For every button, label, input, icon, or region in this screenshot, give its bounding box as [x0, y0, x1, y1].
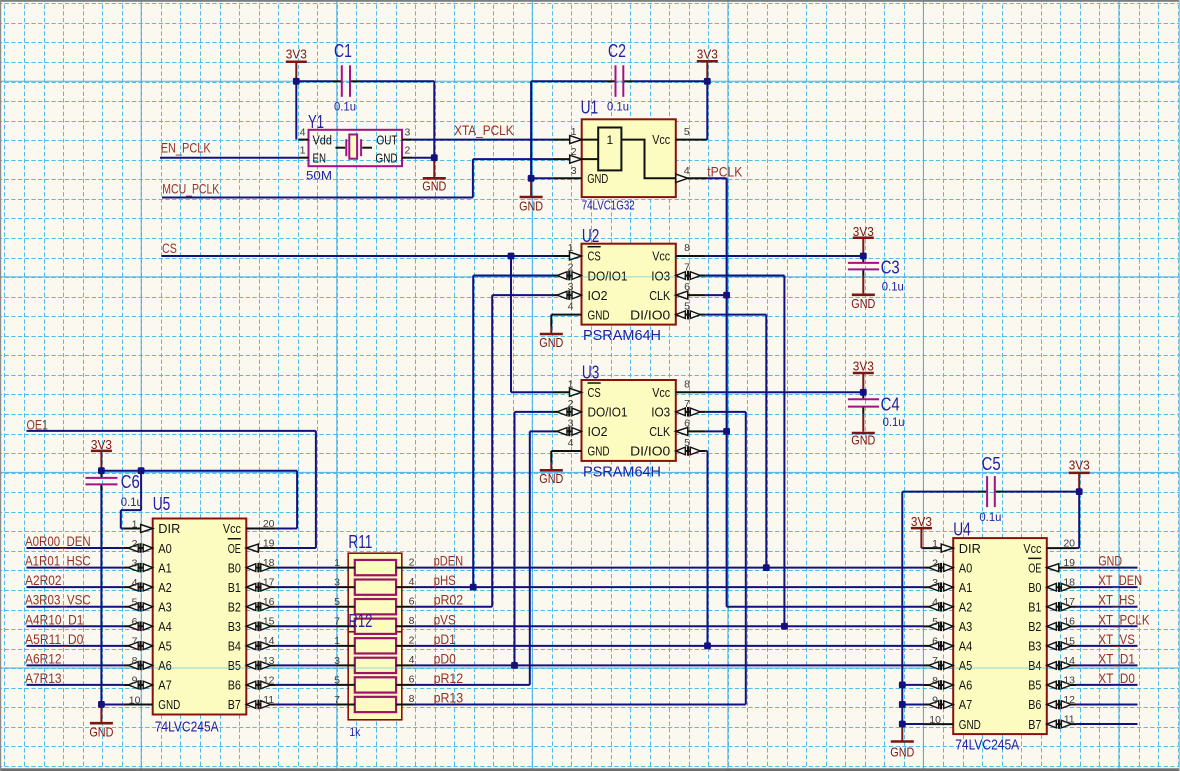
R11 pin 1: [336, 567, 355, 569]
svg-text:A5: A5: [158, 639, 172, 654]
svg-text:8: 8: [684, 242, 690, 254]
svg-text:XT_DEN: XT_DEN: [1098, 573, 1142, 588]
svg-text:A2: A2: [158, 580, 172, 595]
Y1 pin 1: [298, 157, 308, 159]
wire U5 B7 to R12.7: [276, 703, 336, 705]
svg-text:U1: U1: [581, 97, 599, 118]
U2 pin 5: [676, 314, 706, 316]
junction U4 A7: [899, 701, 906, 708]
svg-text:A2R02: A2R02: [25, 573, 62, 588]
svg-text:C6: C6: [121, 471, 140, 492]
wire pR12: [414, 684, 530, 686]
svg-text:XT_VS: XT_VS: [1098, 632, 1135, 647]
svg-text:3: 3: [568, 281, 574, 293]
svg-text:CS: CS: [162, 241, 177, 256]
svg-text:B5: B5: [228, 658, 241, 673]
resistor R11.4: [355, 619, 396, 634]
U4 pin 13: [1047, 684, 1077, 686]
wire CS: [162, 256, 553, 392]
svg-text:GND: GND: [422, 178, 446, 193]
U2 pin 2: [552, 275, 581, 277]
resistor R12.1: [355, 638, 396, 653]
svg-text:OUT: OUT: [377, 132, 398, 147]
svg-text:Vcc: Vcc: [652, 249, 670, 264]
svg-text:17: 17: [1063, 596, 1075, 608]
svg-text:4: 4: [132, 577, 138, 589]
svg-text:XTA_PCLK: XTA_PCLK: [454, 123, 513, 138]
svg-text:3V3: 3V3: [91, 437, 112, 452]
U5 pin 12: [246, 684, 275, 686]
svg-text:OE: OE: [1028, 560, 1041, 575]
wire U2 DO/IO1 to pHS: [473, 276, 552, 588]
wire C2 left down to U1 GND pin: [530, 81, 532, 178]
U3 pin 8: [676, 391, 706, 393]
wire pD1: [414, 645, 924, 647]
svg-text:6: 6: [132, 616, 138, 628]
wire U3 DI/IO0 to pD1: [705, 451, 707, 646]
svg-text:6: 6: [409, 595, 415, 607]
svg-text:GND: GND: [158, 697, 180, 712]
wire pHS: [414, 586, 924, 588]
wire U5 B4 to R12.1: [276, 645, 336, 647]
ground GND at U5 pin10: [89, 704, 113, 739]
wire A6R12: [27, 664, 124, 666]
svg-text:8: 8: [932, 675, 938, 687]
svg-text:4: 4: [568, 437, 574, 449]
svg-text:C1: C1: [334, 40, 352, 61]
svg-text:2: 2: [132, 538, 138, 550]
svg-text:CLK: CLK: [649, 288, 670, 303]
wire U2 IO2 to pR02: [492, 295, 552, 607]
U1 pin 1: [552, 139, 582, 141]
svg-text:A0: A0: [158, 541, 172, 556]
svg-text:C4: C4: [881, 394, 900, 415]
U5 pin 3: [123, 567, 153, 569]
svg-text:Y1: Y1: [308, 111, 324, 132]
R11 pin 5: [336, 606, 355, 608]
svg-text:A0R00_DEN: A0R00_DEN: [25, 534, 91, 549]
U3 pin 3: [552, 430, 581, 432]
svg-text:8: 8: [409, 693, 415, 705]
svg-text:1: 1: [300, 144, 306, 156]
wire U3 DO/IO1 to pD0: [515, 412, 553, 665]
svg-text:0.1u: 0.1u: [979, 510, 1001, 524]
U4 pin 6: [924, 645, 954, 647]
U4 pin 3: [924, 586, 954, 588]
capacitor C4: [848, 392, 905, 431]
capacitor C1: [333, 40, 360, 114]
junction U5 GND row: [98, 701, 105, 708]
svg-text:7: 7: [132, 636, 138, 648]
U5 pin 2: [123, 547, 153, 549]
wire U3 IO2 to pR12: [530, 431, 552, 685]
svg-text:2: 2: [409, 556, 415, 568]
R12 pin 6: [396, 684, 414, 686]
svg-text:XT_HS: XT_HS: [1098, 593, 1135, 608]
svg-text:IO2: IO2: [588, 288, 608, 303]
svg-text:GND: GND: [89, 724, 113, 739]
svg-text:74LVC245A: 74LVC245A: [955, 738, 1019, 754]
svg-text:5: 5: [684, 301, 690, 313]
resistor R12.2: [355, 658, 396, 673]
U1 pin 5: [676, 139, 708, 141]
svg-text:3: 3: [932, 577, 938, 589]
svg-text:A4R10_D1: A4R10_D1: [25, 612, 83, 627]
svg-text:3: 3: [571, 165, 577, 177]
wire U4 B3: [1076, 645, 1137, 647]
svg-text:7: 7: [334, 616, 340, 628]
svg-text:6: 6: [684, 281, 690, 293]
svg-text:DO/IO1: DO/IO1: [588, 268, 628, 283]
svg-text:3: 3: [405, 126, 411, 138]
R11 pin 6: [396, 606, 414, 608]
svg-text:IO2: IO2: [588, 424, 608, 439]
svg-text:5: 5: [334, 596, 340, 608]
svg-text:15: 15: [263, 616, 275, 628]
svg-text:16: 16: [1063, 616, 1075, 628]
svg-text:A1: A1: [158, 560, 172, 575]
wire pVS: [414, 625, 924, 627]
junction DIR branch: [138, 467, 145, 474]
U4 pin 2: [924, 567, 954, 569]
svg-text:B7: B7: [1028, 717, 1041, 732]
power 3V3 at C3: [853, 224, 874, 256]
U5 pin 20: [246, 528, 275, 530]
resistor network R11 body: [348, 553, 402, 632]
svg-text:Vcc: Vcc: [223, 521, 241, 536]
U1 pin 2: [552, 158, 582, 160]
wire U5 B6 to R12.5: [276, 684, 336, 686]
svg-text:4: 4: [684, 165, 690, 177]
junction C2/3V3: [704, 78, 711, 85]
junction U4 GND row: [899, 721, 906, 728]
svg-text:2: 2: [568, 262, 574, 274]
svg-text:9: 9: [932, 694, 938, 706]
wire pR02: [414, 606, 492, 608]
wire U4 B5: [1076, 684, 1137, 686]
svg-text:8: 8: [132, 655, 138, 667]
svg-text:pD1: pD1: [434, 632, 456, 647]
svg-text:2: 2: [568, 398, 574, 410]
svg-text:4: 4: [300, 126, 306, 138]
junction C4 rail: [860, 389, 867, 396]
svg-text:DIR: DIR: [158, 521, 180, 536]
wire U2 DI/IO0 to pDEN: [705, 315, 766, 568]
svg-text:3V3: 3V3: [286, 47, 307, 62]
svg-text:B3: B3: [1028, 639, 1041, 654]
ground GND at U4 pin10: [890, 724, 914, 760]
svg-text:B6: B6: [228, 678, 241, 693]
svg-text:6: 6: [932, 636, 938, 648]
capacitor C6: [86, 471, 143, 509]
svg-text:IO3: IO3: [651, 268, 670, 283]
svg-text:DO/IO1: DO/IO1: [588, 405, 628, 420]
svg-text:4: 4: [409, 654, 415, 666]
svg-text:GND: GND: [588, 444, 610, 459]
wire tPCLK from U1 output: [707, 178, 924, 606]
wire A7R13: [27, 684, 124, 686]
junction C5 rail: [1076, 488, 1083, 495]
Y1 pin 3: [402, 139, 412, 141]
wire U4 B0: [1076, 586, 1137, 588]
U5 pin 7: [123, 645, 153, 647]
svg-text:11: 11: [263, 694, 274, 706]
wire 3V3 to U4 DIR: [921, 547, 923, 549]
svg-text:3V3: 3V3: [911, 514, 932, 529]
svg-text:GND: GND: [890, 745, 914, 760]
resistor R11.2: [355, 580, 396, 595]
svg-text:1: 1: [571, 126, 577, 138]
capacitor C2: [607, 40, 633, 114]
U3 pin 5: [676, 450, 706, 452]
solid grid overlay: [153, 277, 1047, 668]
power 3V3 at C4: [853, 359, 874, 393]
svg-text:tPCLK: tPCLK: [707, 164, 742, 179]
U5 pin 16: [246, 606, 275, 608]
svg-text:A6R12: A6R12: [25, 651, 62, 666]
svg-text:A5R11_D0: A5R11_D0: [25, 632, 84, 647]
svg-text:3: 3: [334, 577, 340, 589]
wire A5R11_D0: [27, 645, 124, 647]
U2 pin 4: [551, 314, 581, 316]
svg-text:16: 16: [263, 596, 275, 608]
svg-text:U3: U3: [582, 361, 600, 382]
wire U3 Vcc to C4: [705, 391, 863, 393]
svg-text:18: 18: [1063, 577, 1075, 589]
R11 pin 4: [396, 586, 414, 588]
wire C2 right down to U1 Vcc pin: [706, 81, 708, 139]
svg-text:B3: B3: [228, 619, 241, 634]
svg-text:19: 19: [263, 537, 275, 549]
ground GND at C4: [851, 433, 875, 448]
junction C3 rail: [860, 253, 867, 260]
svg-text:B5: B5: [1028, 678, 1041, 693]
U5 pin 18: [246, 567, 275, 569]
svg-text:7: 7: [684, 262, 690, 274]
junction U1 GND: [528, 175, 535, 182]
svg-text:C5: C5: [982, 453, 1001, 474]
svg-text:4: 4: [568, 301, 574, 313]
U3 pin 6: [676, 430, 706, 432]
U4 pin 4: [924, 606, 954, 608]
svg-text:0.1u: 0.1u: [883, 415, 905, 429]
U3 pin 4: [551, 450, 581, 452]
svg-text:2: 2: [405, 144, 411, 156]
svg-text:B6: B6: [1028, 697, 1041, 712]
R12 pin 4: [396, 664, 414, 666]
wire Y1 GND to node: [412, 157, 434, 159]
wire A0R00_DEN: [27, 547, 124, 549]
svg-text:GND: GND: [1098, 554, 1122, 569]
wire U4 B1: [1076, 606, 1137, 608]
junction pD1: [704, 642, 711, 649]
R12 pin 2: [396, 645, 414, 647]
U5 pin 8: [123, 664, 153, 666]
svg-text:C3: C3: [881, 257, 900, 278]
U4 pin 19: [1047, 567, 1077, 569]
svg-text:5: 5: [932, 616, 938, 628]
svg-text:7: 7: [334, 694, 340, 706]
svg-text:U4: U4: [953, 519, 971, 540]
wire U4 A6 tie: [902, 684, 923, 686]
U5 pin 14: [246, 645, 275, 647]
U4 pin 14: [1047, 664, 1077, 666]
svg-text:A2: A2: [959, 599, 973, 614]
U2 pin 7: [676, 275, 706, 277]
wire U4 B4: [1076, 664, 1137, 666]
svg-text:B0: B0: [228, 560, 241, 575]
svg-text:5: 5: [334, 674, 340, 686]
svg-text:C2: C2: [608, 40, 626, 61]
wire U2 CLK: [705, 294, 726, 296]
resistor R11.3: [355, 599, 396, 614]
svg-text:10: 10: [129, 694, 141, 706]
svg-text:74LVC245A: 74LVC245A: [155, 720, 219, 736]
svg-text:8: 8: [409, 615, 415, 627]
wire U4 B2: [1076, 625, 1137, 627]
svg-text:0.1u: 0.1u: [607, 100, 629, 114]
wire U3 IO3 to pR13: [705, 412, 746, 705]
junction U4 A6: [899, 682, 906, 689]
svg-text:GND: GND: [588, 307, 610, 322]
wire U4 OE to GND label: [1076, 567, 1137, 569]
junction pDEN: [763, 564, 770, 571]
svg-text:A7: A7: [158, 678, 172, 693]
wire U5 B5 to R12.3: [276, 664, 336, 666]
svg-text:1: 1: [334, 557, 340, 569]
svg-text:0.1u: 0.1u: [121, 495, 143, 509]
U4 pin 7: [924, 664, 954, 666]
wire A2R02: [27, 586, 124, 588]
U4 pin 15: [1047, 645, 1077, 647]
wire U5 B1 to R11.3: [276, 586, 336, 588]
wire 3V3 rail to U5 Vcc: [101, 471, 297, 529]
svg-text:A4: A4: [959, 639, 973, 654]
power 3V3 at C6: [91, 437, 112, 471]
svg-text:pHS: pHS: [434, 573, 456, 588]
U5 pin 15: [246, 625, 275, 627]
svg-text:19: 19: [1063, 557, 1075, 569]
wire pR13: [414, 703, 746, 705]
svg-text:8: 8: [684, 378, 690, 390]
U4 pin 18: [1047, 586, 1077, 588]
svg-text:DI/IO0: DI/IO0: [630, 444, 670, 459]
svg-text:GND: GND: [376, 150, 398, 165]
svg-text:pR02: pR02: [434, 593, 464, 608]
svg-text:pDEN: pDEN: [434, 554, 464, 569]
U4 pin 17: [1047, 606, 1077, 608]
wire C5 right down to U4 Vcc: [1076, 492, 1079, 548]
wire U4 B6: [1076, 703, 1137, 705]
Y1 pin 4: [298, 139, 308, 141]
wire C6 down to U5 GND: [100, 484, 102, 704]
svg-text:2: 2: [409, 635, 415, 647]
U5 pin 1: [123, 528, 153, 530]
svg-text:20: 20: [263, 518, 275, 530]
U4 pin 5: [924, 625, 954, 627]
svg-text:CS: CS: [588, 385, 601, 400]
U5 pin 17: [246, 586, 275, 588]
wire OE1: [27, 431, 316, 548]
svg-text:15: 15: [1063, 635, 1075, 647]
ground GND at Y1: [422, 158, 446, 194]
svg-text:2: 2: [571, 146, 577, 158]
svg-text:DI/IO0: DI/IO0: [630, 307, 670, 322]
junction 3V3/C1: [293, 78, 300, 85]
svg-text:Vcc: Vcc: [652, 132, 670, 147]
U2 pin 6: [676, 294, 706, 296]
svg-text:3: 3: [568, 417, 574, 429]
svg-text:MCU_PCLK: MCU_PCLK: [162, 182, 219, 197]
U3 pin 2: [552, 411, 581, 413]
wire U1 GND pin: [531, 177, 552, 179]
U4 pin 20: [1047, 547, 1077, 549]
svg-text:3V3: 3V3: [697, 47, 718, 62]
wire 3V3 to Y1 Vdd: [295, 81, 297, 139]
ground GND at C3: [851, 295, 875, 311]
svg-text:1: 1: [932, 538, 938, 550]
oscillator Y1: [309, 130, 403, 166]
svg-text:B2: B2: [1028, 619, 1041, 634]
svg-text:PSRAM64H: PSRAM64H: [583, 464, 661, 480]
svg-text:A1: A1: [959, 580, 973, 595]
wire U2 IO3 to pVS: [705, 276, 784, 627]
wire C2 top rail: [531, 80, 707, 82]
svg-text:2: 2: [932, 557, 938, 569]
svg-text:11: 11: [1064, 713, 1075, 725]
svg-text:10: 10: [929, 714, 941, 726]
wire U5 B0 to R11.1: [276, 567, 336, 569]
svg-text:A6: A6: [959, 678, 973, 693]
svg-text:14: 14: [1063, 655, 1075, 667]
R12 pin 3: [336, 664, 355, 666]
wire U5 GND pin: [101, 703, 123, 705]
R11 pin 8: [396, 625, 414, 627]
U5 pin 11: [246, 703, 275, 705]
svg-text:3: 3: [132, 557, 138, 569]
svg-text:pD0: pD0: [434, 651, 457, 666]
U1 pin 3: [552, 177, 582, 179]
wire A1R01_HSC: [27, 567, 124, 569]
U3 pin 1: [552, 391, 581, 393]
U5 pin 4: [123, 586, 153, 588]
wire C5 rail: [902, 491, 1079, 493]
svg-text:12: 12: [263, 674, 275, 686]
svg-text:Vcc: Vcc: [652, 385, 670, 400]
svg-text:7: 7: [684, 398, 690, 410]
R12 pin 7: [336, 703, 355, 705]
U5 pin 13: [246, 664, 275, 666]
junction CS split: [508, 253, 515, 260]
svg-text:EN_PCLK: EN_PCLK: [161, 141, 211, 156]
svg-text:XT_PCLK: XT_PCLK: [1098, 612, 1149, 627]
svg-text:CLK: CLK: [649, 424, 670, 439]
wire C1 right down to GND node: [433, 81, 435, 157]
wire U5 B2 to R11.5: [276, 606, 336, 608]
IC U1 74LVC1G32: [582, 119, 676, 197]
svg-text:GND: GND: [539, 335, 563, 350]
U5 pin 9: [123, 684, 153, 686]
svg-text:R11: R11: [348, 531, 372, 552]
svg-text:3V3: 3V3: [1069, 457, 1090, 472]
svg-text:GND: GND: [539, 471, 563, 486]
wire EN_PCLK: [160, 157, 298, 159]
R11 pin 3: [336, 586, 355, 588]
svg-text:4: 4: [409, 576, 415, 588]
U2 pin 3: [552, 294, 581, 296]
svg-text:A4: A4: [158, 619, 172, 634]
wire U5 B3 to R11.7: [276, 625, 336, 627]
